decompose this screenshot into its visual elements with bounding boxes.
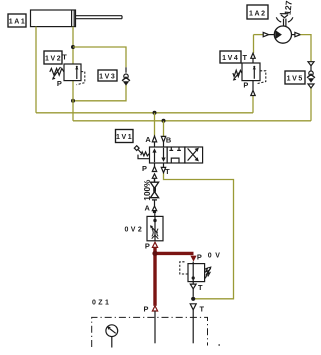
valve 1V1 left position arrows: [155, 148, 164, 162]
node bus2 to valve B: [162, 119, 166, 123]
svg-text:100%: 100%: [143, 179, 152, 201]
svg-text:P: P: [57, 79, 62, 88]
svg-text:1V4: 1V4: [222, 55, 239, 62]
valve 1V1 port A arrow: [152, 136, 156, 142]
node supply junction: [152, 251, 157, 256]
svg-text:0Z1: 0Z1: [92, 300, 111, 307]
tank line arrow: [190, 304, 196, 310]
cylinder 1A1 label: [8, 14, 26, 27]
stray dash-dot fragment: [218, 344, 220, 346]
wire 1V3 branch bottom: [73, 85, 126, 101]
valve 1V2 internal arrow: [75, 66, 78, 69]
wire tank line into unit: [192, 310, 194, 344]
motor 1A2 label: [247, 5, 268, 19]
relief valve 0V1 body: [188, 264, 205, 282]
pressure line main supply: [154, 247, 194, 305]
svg-text:T: T: [199, 304, 204, 313]
valve 1V1 port B arrow: [161, 136, 165, 142]
flow arrow motor left: [263, 32, 269, 36]
valve 1V2 label: [44, 51, 62, 64]
valve 1V1 port T arrow: [161, 167, 165, 172]
svg-text:T: T: [62, 53, 67, 62]
check valve 1V3 label: [98, 70, 117, 81]
wire motor right: [292, 34, 295, 36]
svg-text:T: T: [198, 283, 203, 292]
svg-text:P: P: [197, 252, 202, 261]
valve 1V1 lever actuator: [134, 146, 149, 159]
pressure gauge: [106, 325, 118, 348]
valve 1V4 pilot dashed: [257, 71, 266, 84]
flow control 0V2 adjust arrow: [152, 227, 158, 233]
svg-text:1V1: 1V1: [116, 134, 133, 141]
svg-text:0V: 0V: [208, 252, 224, 259]
valve 1V1 port P arrow: [152, 166, 156, 171]
flow arrow motor right: [295, 32, 301, 36]
check valve 1V3: [122, 67, 130, 85]
valve 1V2 spring: [50, 68, 64, 75]
motor 1A2: [274, 26, 291, 43]
svg-text:A: A: [145, 203, 151, 212]
valve 1V4 spring: [233, 70, 242, 76]
valve 1V4 P arrow: [251, 90, 255, 95]
valve 1V1 body squares: [150, 147, 203, 163]
wire orifice to 0V2: [154, 200, 156, 206]
valve 1V1 right position crossed arrows: [188, 148, 197, 160]
valve 1V4 label: [220, 51, 241, 63]
orifice with 100% label: [150, 178, 158, 200]
wire pump line into unit: [154, 311, 156, 343]
valve 1V2 adjust arrow: [54, 67, 61, 77]
flow control valve 0V2 body: [147, 216, 163, 240]
flow control 0V2 throttle curves: [152, 229, 158, 237]
wire drop to 1V1 A: [154, 113, 156, 136]
svg-text:B: B: [166, 135, 171, 144]
svg-text:1V2: 1V2: [45, 56, 62, 63]
svg-text:1V3: 1V3: [99, 74, 116, 81]
check valve 1V5 flow arrow top: [308, 62, 314, 66]
svg-text:A: A: [145, 135, 151, 144]
svg-text:127: 127: [282, 0, 293, 15]
tachometer symbol: [276, 14, 293, 27]
power unit 0Z1 enclosure dash-dot: [92, 317, 208, 347]
wire 1V1 T return to tank: [164, 173, 234, 299]
wire 1V2 P down to bus2: [72, 81, 74, 121]
svg-text:1A2: 1A2: [249, 10, 267, 17]
wire motor left: [254, 34, 264, 36]
node tank return junction: [191, 297, 195, 301]
flow arrow into 0V1: [190, 256, 196, 262]
svg-text:1V5: 1V5: [287, 76, 304, 83]
svg-text:P: P: [144, 304, 149, 313]
wire cylinder rod port down: [72, 27, 74, 65]
pressure line 0V2 P arrow: [152, 242, 157, 247]
wire bus1 up to 1V4 P: [252, 96, 254, 113]
flow control 0V2 port A arrow: [152, 206, 156, 211]
valve 1V4 T arrow: [251, 53, 255, 58]
wire bus2 up to 1V5: [310, 88, 312, 121]
wire bus2 rod-side: [73, 120, 311, 122]
svg-text:P: P: [142, 164, 147, 173]
valve 1V2 body: [64, 64, 81, 81]
svg-text:1A1: 1A1: [9, 19, 27, 26]
wire bus1 piston-side: [36, 112, 253, 114]
relief valve 0V1 adjust arrow: [205, 269, 210, 279]
valve 1V4 body: [242, 63, 260, 81]
pressure line P arrow at unit: [152, 306, 157, 311]
flow arrow below 1V1 P: [152, 174, 156, 178]
relief valve 0V1 pilot dashed: [180, 262, 188, 274]
wire drop to 1V1 B: [163, 121, 165, 137]
check valve 1V5: [309, 71, 313, 75]
check valve 1V5 label: [285, 71, 305, 84]
relief valve 0V1 spring: [205, 268, 210, 276]
node 1V2 P junction: [71, 99, 75, 103]
svg-text:P: P: [243, 80, 248, 89]
relief valve 0V1 T port: [192, 282, 194, 285]
cylinder 1A1 body: [31, 10, 123, 27]
valve 1V2 pilot dashed: [77, 72, 85, 85]
node rod-side junction: [71, 45, 75, 49]
flow control 0V2 internal node: [153, 219, 156, 222]
svg-text:T: T: [243, 53, 248, 62]
svg-text:P: P: [145, 241, 150, 250]
valve 1V1 label: [116, 130, 134, 143]
svg-text:0V2: 0V2: [125, 226, 145, 233]
flow control 0V2 bottom ticks: [152, 235, 159, 239]
valve 1V4 adjust arrow: [235, 72, 240, 78]
valve 1V1 middle position blocked ports: [169, 147, 181, 163]
wire cylinder piston port down: [35, 27, 37, 113]
check valve 1V5 flow arrow bottom: [308, 84, 314, 88]
node bus1 to valve A: [153, 111, 157, 115]
wire rod junction to 1V3 branch: [73, 47, 126, 67]
